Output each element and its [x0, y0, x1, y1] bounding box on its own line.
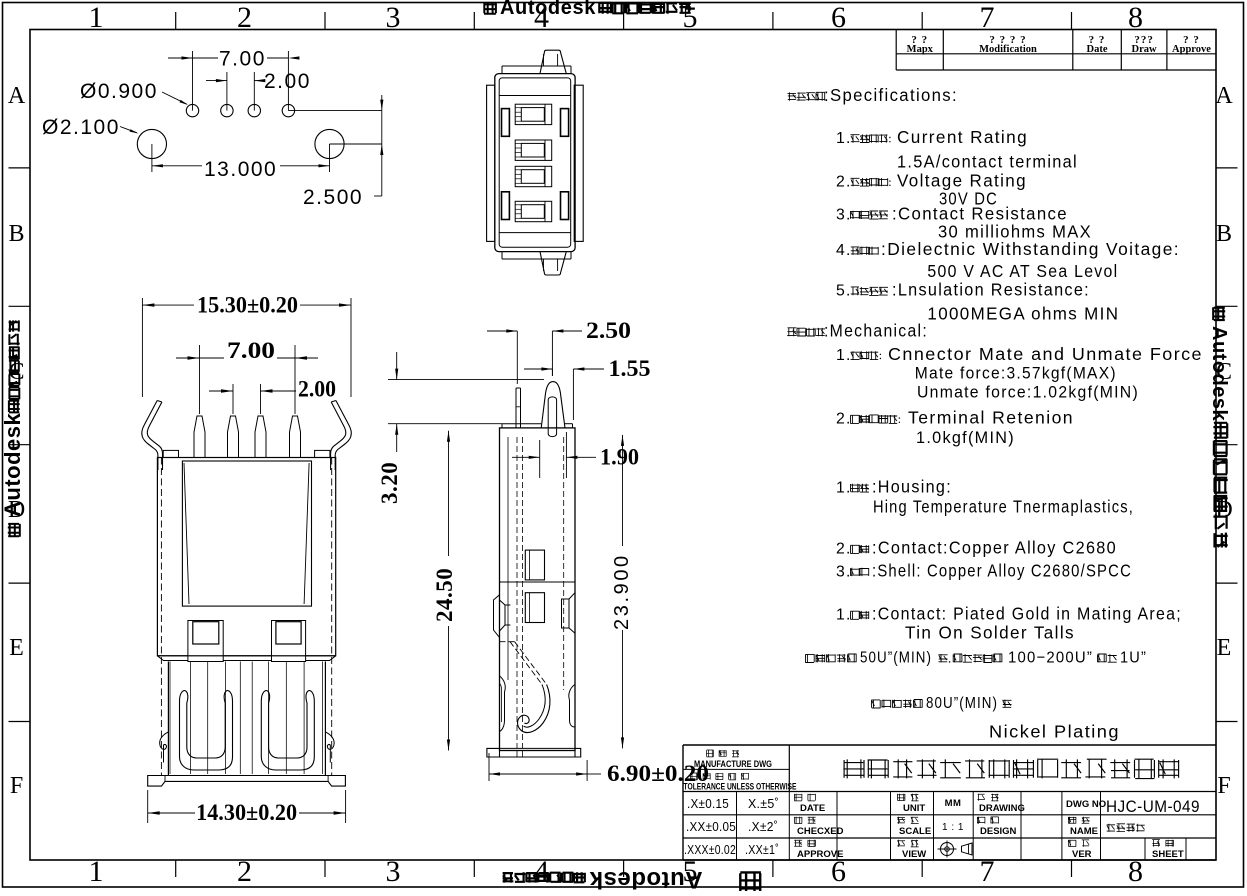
top view: bottom band	[502, 258, 571, 260]
front view: contact springs	[180, 691, 188, 757]
side view: hidden lines dashed	[516, 437, 518, 748]
footprint: four 0.9mm pin holes	[186, 104, 198, 116]
watermark bottom (rotated 180)	[503, 866, 761, 893]
top view: bottom latch tab	[540, 252, 566, 275]
svg-text:Date: Date	[1087, 44, 1108, 55]
svg-text:4: 4	[534, 855, 549, 888]
top view: top band	[502, 65, 571, 67]
grid columns	[736, 792, 738, 861]
svg-text:2.: 2.	[836, 174, 852, 191]
side view: latch slot	[548, 397, 556, 437]
dim 15.30±0.20	[141, 298, 143, 397]
side view: mid horizontal line	[500, 581, 576, 583]
side view: diagonal spring (dashed)	[515, 642, 547, 685]
dim 2.50	[516, 331, 518, 384]
side view: right window hook	[562, 593, 576, 634]
side view: right bottom hook	[569, 684, 575, 727]
svg-text:HJC-UM-049: HJC-UM-049	[1106, 798, 1200, 816]
side view: left bottom hook	[500, 676, 506, 731]
svg-text:1: 1	[89, 1, 104, 34]
company cell divider	[788, 745, 790, 792]
svg-text::Dielectnic Withstanding Voi: :Dielectnic Withstanding Voitage:	[881, 239, 1180, 259]
svg-text:DESIGN: DESIGN	[980, 826, 1017, 837]
reference line pin-top level	[388, 379, 544, 381]
svg-text:VER: VER	[1072, 849, 1092, 860]
svg-text:1.: 1.	[836, 479, 852, 496]
top view: side windows	[502, 109, 510, 137]
svg-text:F: F	[10, 773, 23, 799]
zone tick marks left/right	[9, 167, 31, 169]
svg-text:7: 7	[980, 1, 995, 34]
svg-text:1.: 1.	[836, 130, 852, 147]
side view: left window hook	[494, 595, 511, 638]
svg-text:NAME: NAME	[1070, 826, 1098, 837]
svg-text:A: A	[8, 83, 26, 109]
svg-text:E: E	[9, 635, 24, 661]
spec text block	[788, 92, 796, 100]
svg-text:Mapx: Mapx	[907, 44, 934, 55]
svg-text:DATE: DATE	[800, 803, 825, 814]
svg-text:Unmate force:1.02kgf(MIN): Unmate force:1.02kgf(MIN)	[917, 383, 1139, 402]
svg-text:A: A	[1215, 83, 1233, 109]
svg-text:2: 2	[237, 855, 252, 888]
svg-text:1U”: 1U”	[1120, 650, 1147, 667]
front view: left wing (S-shaped retention clip)	[142, 401, 158, 471]
svg-text:TOLERANCE UNLESS OTHERWISE: TOLERANCE UNLESS OTHERWISE	[684, 782, 797, 792]
dim 14.30±0.20	[147, 790, 149, 823]
front view: mating opening	[182, 461, 311, 606]
top view: side rails	[487, 85, 495, 241]
front view: housing channel walls	[169, 662, 171, 775]
svg-text:5.: 5.	[836, 283, 852, 300]
front view: hidden side lines (dashed)	[160, 458, 162, 776]
svg-text:2.50: 2.50	[586, 318, 631, 343]
svg-text:SHEET: SHEET	[1152, 849, 1184, 860]
svg-text:UNIT: UNIT	[903, 803, 925, 814]
svg-text::Contact: Piated Gold in M: :Contact: Piated Gold in Mating Area;	[872, 604, 1182, 624]
svg-text:Modification: Modification	[979, 44, 1037, 55]
side view: bottom spring hook	[518, 684, 550, 732]
svg-text:E: E	[1217, 635, 1232, 661]
dim 13.000 (shell hole span)	[151, 144, 153, 172]
svg-text:Autodesk: Autodesk	[0, 413, 25, 518]
svg-text:50U”(MIN): 50U”(MIN)	[860, 650, 932, 667]
svg-text:1: 1	[89, 855, 104, 888]
manufacture dwg label	[706, 750, 713, 757]
dim 7.00 (hole span)	[192, 51, 194, 111]
row labels col7	[977, 794, 985, 801]
title block frame	[683, 744, 1216, 746]
svg-text:1.: 1.	[836, 607, 852, 624]
row labels col3	[794, 794, 802, 801]
svg-text:.XX±0.05: .XX±0.05	[686, 819, 736, 834]
company name	[843, 759, 864, 778]
svg-text::Specifications:: :Specifications:	[824, 85, 958, 105]
ver / sheet	[1068, 840, 1076, 847]
dim 3.20	[396, 352, 398, 380]
svg-text::Contact:Copper Alloy C2680: :Contact:Copper Alloy C2680	[872, 538, 1117, 558]
svg-text:Autodesk: Autodesk	[1208, 326, 1230, 422]
side view: shell latch arch	[541, 382, 565, 428]
svg-text:2.: 2.	[836, 411, 852, 428]
front view: corner tabs	[163, 450, 178, 457]
reference line shell-top level	[388, 423, 502, 425]
svg-text:3.: 3.	[836, 206, 852, 223]
svg-text:Cnnector Mate and Unmate F: Cnnector Mate and Unmate Force	[888, 344, 1203, 364]
footprint: two 2.1mm shell holes	[137, 129, 166, 158]
dim 1.55	[572, 369, 574, 420]
svg-text:Hing Temperature Tnermapla: Hing Temperature Tnermaplastics,	[873, 497, 1134, 517]
revision table	[895, 30, 897, 71]
side view: body outline	[500, 428, 576, 751]
watermark top	[484, 0, 691, 19]
front view: side latch hooks	[160, 732, 169, 763]
svg-text:24.50: 24.50	[432, 568, 457, 622]
svg-text::Housing:: :Housing:	[872, 476, 952, 496]
watermark left (rotated -90)	[0, 320, 25, 536]
svg-text:Terminal Retenion: Terminal Retenion	[908, 408, 1074, 428]
front view: 4 pins	[194, 416, 205, 458]
dim 6.90±0.20	[488, 753, 490, 781]
svg-text:1.90: 1.90	[600, 445, 639, 470]
svg-text:F: F	[1217, 773, 1230, 799]
svg-text:B: B	[8, 221, 24, 247]
svg-text:Approve: Approve	[1172, 44, 1211, 55]
side view: terminal pin up	[515, 388, 517, 428]
front view: shell bottom line	[157, 655, 188, 657]
svg-text:4.: 4.	[836, 242, 852, 259]
svg-text:Current Rating: Current Rating	[897, 127, 1028, 147]
svg-text:X.±5˚: X.±5˚	[748, 796, 779, 811]
svg-text:3.20: 3.20	[377, 462, 402, 504]
svg-text:Ø2.100: Ø2.100	[42, 116, 120, 139]
svg-text:MANUFACTURE DWG: MANUFACTURE DWG	[694, 759, 772, 769]
side view: contact blocks	[525, 550, 544, 580]
plating note line 1	[805, 654, 814, 662]
front view: bottom flange and feet	[148, 776, 346, 787]
dim 2.00 (pin pitch)	[226, 72, 228, 111]
dim 1.90	[539, 440, 541, 478]
svg-text:1 : 1: 1 : 1	[942, 822, 964, 833]
dim 2.00 front	[232, 384, 234, 414]
svg-text:.XX±1˚: .XX±1˚	[745, 842, 779, 857]
svg-text:80U”(MIN): 80U”(MIN)	[926, 695, 998, 712]
top view: 4 contacts	[515, 104, 552, 124]
zone tick marks top/bottom	[175, 12, 177, 30]
svg-text:Autodesk: Autodesk	[589, 866, 703, 891]
svg-text:2.00: 2.00	[298, 377, 336, 402]
svg-text:DRAWING: DRAWING	[979, 803, 1025, 814]
top view: shell outer	[495, 74, 575, 252]
svg-text:1.55: 1.55	[609, 356, 651, 381]
svg-text:DWG NO: DWG NO	[1066, 799, 1106, 810]
svg-text:2: 2	[237, 1, 252, 34]
svg-text:1000MEGA ohms MIN: 1000MEGA ohms MIN	[927, 303, 1119, 323]
side view: bottom flange	[487, 748, 500, 757]
svg-text:1.: 1.	[836, 347, 852, 364]
svg-text:Ø0.900: Ø0.900	[80, 80, 158, 103]
svg-text:500 V AC AT Sea Levol: 500 V AC AT Sea Levol	[927, 261, 1118, 281]
top view: top latch tab	[540, 50, 566, 73]
svg-text:VIEW: VIEW	[902, 849, 926, 860]
svg-text:SCALE: SCALE	[899, 826, 931, 837]
svg-text:3.: 3.	[836, 563, 852, 580]
svg-text:MM: MM	[945, 798, 962, 809]
plating note line 2	[872, 700, 881, 708]
svg-text:Draw: Draw	[1132, 44, 1157, 55]
svg-text:23.900: 23.900	[611, 553, 633, 630]
svg-text:CHECXED: CHECXED	[797, 826, 844, 837]
svg-text:3: 3	[386, 855, 401, 888]
dim 24.50	[448, 431, 450, 556]
svg-text:6: 6	[831, 1, 846, 34]
svg-text:.X±2˚: .X±2˚	[748, 819, 778, 834]
svg-text:2.00: 2.00	[264, 70, 311, 93]
svg-text:8: 8	[1128, 1, 1143, 34]
svg-text::Mechanical:: :Mechanical:	[824, 321, 928, 341]
svg-text:14.30±0.20: 14.30±0.20	[196, 800, 297, 825]
svg-text:.XXX±0.02: .XXX±0.02	[684, 842, 736, 857]
dim 23.900	[622, 435, 624, 546]
tolerance label	[690, 773, 697, 780]
watermark right (rotated 90)	[1208, 307, 1230, 547]
svg-text:Nickel Plating: Nickel Plating	[989, 722, 1120, 742]
svg-text:100−200U”: 100−200U”	[1008, 650, 1093, 667]
svg-text:7.00: 7.00	[219, 48, 266, 71]
svg-text:2.500: 2.500	[303, 186, 363, 209]
side view: top lip	[502, 423, 541, 425]
front view: housing top with chamfer	[157, 656, 188, 661]
front view: housing body sides	[167, 662, 169, 776]
svg-text:B: B	[1216, 221, 1232, 247]
svg-text:Autodesk: Autodesk	[500, 0, 596, 19]
svg-text:2.: 2.	[836, 541, 852, 558]
name	[1068, 817, 1076, 824]
svg-text:15.30±0.20: 15.30±0.20	[197, 293, 298, 318]
svg-text::Contact Resistance: :Contact Resistance	[892, 203, 1068, 223]
svg-text::Lnsulation Resistance:: :Lnsulation Resistance:	[892, 280, 1090, 300]
svg-text:3: 3	[386, 1, 401, 34]
svg-text:13.000: 13.000	[204, 158, 277, 181]
svg-text:7.00: 7.00	[227, 338, 275, 363]
dim 2.500 (row offset)	[288, 110, 381, 112]
svg-text:1.5A/contact terminal: 1.5A/contact terminal	[897, 152, 1078, 172]
svg-text:Mate force:3.57kgf(MAX): Mate force:3.57kgf(MAX)	[915, 364, 1117, 383]
dim 7.00 front	[199, 345, 201, 414]
row labels col5	[897, 794, 905, 801]
svg-text:.X±0.15: .X±0.15	[687, 796, 729, 811]
svg-text::Shell: Copper Alloy C2680/: :Shell: Copper Alloy C2680/SPCC	[872, 560, 1132, 580]
front view: contact window posts	[188, 621, 223, 662]
front view: shell outer rect	[157, 458, 335, 656]
front view: right wing	[335, 401, 351, 471]
svg-text:Tin On Solder Talls: Tin On Solder Talls	[905, 623, 1075, 643]
top view: inner end lines	[499, 95, 571, 97]
top view: shell inner	[499, 78, 571, 247]
first angle projection symbols	[941, 843, 954, 856]
svg-text:APPROVE: APPROVE	[797, 849, 843, 860]
svg-text:1.0kgf(MIN): 1.0kgf(MIN)	[916, 428, 1015, 447]
